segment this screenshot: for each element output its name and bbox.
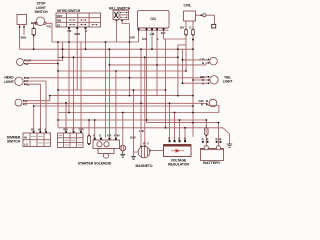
- wire row y95.6: [50, 95, 193, 97]
- vertical x129.5 kill: [129, 24, 131, 96]
- kill switch: [113, 9, 129, 21]
- wire VR pin2 up: [174, 113, 176, 141]
- wire magneto to regulator: [150, 150, 164, 152]
- wire connector BR up: [65, 103, 67, 131]
- wire headlight BL: [25, 84, 41, 131]
- svg-text:W: W: [38, 128, 41, 132]
- wire row y127.8: [58, 127, 223, 129]
- dimmer switch: [23, 128, 51, 147]
- wire row y57.3: [58, 56, 178, 58]
- wire kill pin2 bend: [122, 21, 130, 24]
- wire magneto W up: [140, 49, 142, 146]
- svg-text:BL: BL: [31, 128, 35, 132]
- svg-text:Y: Y: [44, 128, 46, 132]
- vertical x94.7 solenoid B: [94, 120, 96, 138]
- wire row y44.9: [178, 44, 186, 46]
- wire CDI pin1 down: [138, 30, 140, 42]
- fuse mid: [88, 134, 91, 145]
- wire CDI pin2 down: [146, 30, 148, 122]
- wire battery fuse up: [205, 120, 207, 127]
- wire stop switch left: [34, 23, 35, 28]
- starter button: [120, 145, 126, 151]
- stop light switch label: [34, 2, 48, 14]
- wire row y64.9: [109, 64, 206, 66]
- stop light switch: [31, 17, 52, 28]
- wire connector G/R up: [80, 42, 82, 131]
- wire dimmer BL up (fuse line): [33, 106, 35, 131]
- svg-text:R/W: R/W: [114, 133, 120, 137]
- wire VR pin3 up: [179, 120, 181, 140]
- wire lightC pin2 bend: [207, 104, 219, 112]
- wire CDI pin5 to coil: [164, 30, 187, 39]
- coil: [180, 11, 216, 36]
- wire stop switch right: [46, 23, 52, 42]
- wire row y112.5: [58, 112, 219, 114]
- battery: [201, 137, 224, 160]
- left light 1: [17, 59, 33, 66]
- svg-text:SWITCH: SWITCH: [7, 140, 21, 144]
- wire connector G up: [73, 57, 75, 131]
- wire row y90: [58, 89, 166, 91]
- vertical x133.5: [133, 90, 135, 152]
- vertical x77.2 keyed B/W: [76, 29, 78, 90]
- vertical x69 keyed Y.R: [68, 29, 70, 113]
- wire row y71: [58, 70, 186, 72]
- wire light1 pin2: [25, 63, 58, 65]
- svg-text:LIGHT: LIGHT: [4, 80, 15, 84]
- svg-text:REGULATOR: REGULATOR: [168, 163, 189, 167]
- svg-text:Y/G: Y/G: [46, 24, 52, 28]
- vertical x58: [57, 42, 59, 128]
- vertical x182.4: [181, 49, 183, 83]
- vertical x157: [156, 65, 158, 96]
- svg-text:OFF: OFF: [57, 14, 63, 18]
- svg-text:LIGHT: LIGHT: [223, 80, 234, 84]
- ground starter button: [120, 151, 125, 157]
- wire tail pin3: [182, 82, 208, 84]
- wire row y120: [58, 119, 206, 121]
- vertical x116 solenoid RW: [115, 71, 117, 138]
- svg-text:STARTER SOLENOID: STARTER SOLENOID: [78, 161, 112, 165]
- connector block: [58, 128, 85, 148]
- svg-text:HI: HI: [24, 136, 27, 140]
- keyed switch: [56, 13, 101, 36]
- vertical x85.5 keyed B: [85, 29, 87, 49]
- wire fuse up: [88, 120, 90, 135]
- wire flasher pin2 down: [23, 28, 25, 36]
- svg-text:B/Y: B/Y: [180, 26, 185, 30]
- wire light3 pin1: [24, 96, 50, 101]
- wire VR pin4 up: [184, 128, 186, 140]
- svg-text:ON: ON: [57, 19, 61, 23]
- svg-text:B: B: [219, 137, 221, 141]
- wire battery right terminal: [218, 123, 220, 146]
- CDI: [138, 11, 170, 41]
- wire tail pin2: [193, 79, 209, 81]
- svg-text:BATTERY: BATTERY: [203, 161, 221, 165]
- svg-text:B: B: [216, 137, 218, 141]
- wire battery left terminal: [205, 136, 207, 146]
- wire coil B/Y column: [185, 35, 187, 71]
- flasher box: [17, 15, 27, 40]
- vertical x177.9: [177, 45, 179, 96]
- svg-text:ST: ST: [57, 23, 61, 27]
- vertical x165.5: [165, 39, 167, 128]
- svg-text:COIL: COIL: [184, 3, 192, 7]
- starter solenoid: [93, 133, 120, 158]
- wire row y49.2: [20, 47, 194, 50]
- wire CDI pin4 down: [156, 30, 158, 65]
- wire lightA pin2: [206, 63, 208, 65]
- tail light: [200, 75, 218, 85]
- wire kill switch to row: [116, 21, 118, 42]
- ground battery right: [223, 128, 230, 144]
- voltage regulator: [164, 136, 192, 156]
- svg-text:G/W: G/W: [130, 135, 136, 139]
- wire row y42: [52, 41, 139, 43]
- wire light3 pin2 / long light row: [24, 102, 207, 105]
- svg-text:B/W: B/W: [21, 36, 27, 40]
- wire VR pin1 up: [169, 103, 171, 140]
- wire magneto Y up: [144, 57, 146, 146]
- wire coil G column: [192, 35, 194, 137]
- wire headlight W: [25, 77, 209, 78]
- vertical x109.4 solenoid: [108, 49, 110, 138]
- wire light1 pin1: [25, 42, 63, 60]
- wire CDI pin3 down: [151, 30, 153, 49]
- vertical x122.8 starter button: [122, 113, 124, 146]
- wire lightA pin1: [182, 59, 208, 61]
- wire flasher down: [19, 28, 21, 49]
- svg-text:MAGNETO: MAGNETO: [136, 164, 153, 168]
- head light: [15, 76, 31, 86]
- svg-text:KEYED SWITCH: KEYED SWITCH: [57, 9, 81, 13]
- svg-text:L/B: L/B: [139, 129, 144, 133]
- wire row y122.6: [147, 122, 219, 124]
- right light A: [200, 57, 218, 65]
- battery fuse: [205, 127, 209, 137]
- vertical x105.5 solenoid YR: [105, 42, 107, 138]
- svg-text:CDI: CDI: [150, 17, 156, 21]
- right light C: [199, 99, 217, 107]
- svg-text:KILL SWITCH: KILL SWITCH: [109, 6, 131, 10]
- svg-text:B: B: [201, 103, 203, 107]
- magneto: [138, 141, 150, 157]
- svg-text:Y: Y: [147, 141, 149, 145]
- left light 3: [15, 99, 28, 106]
- magneto ground: [134, 152, 139, 157]
- svg-text:SWITCH: SWITCH: [34, 10, 48, 14]
- junction dots: [33, 41, 220, 129]
- wire row y107.2: [34, 105, 193, 107]
- fuse F1: [32, 27, 35, 49]
- wire headlight B: [25, 81, 46, 131]
